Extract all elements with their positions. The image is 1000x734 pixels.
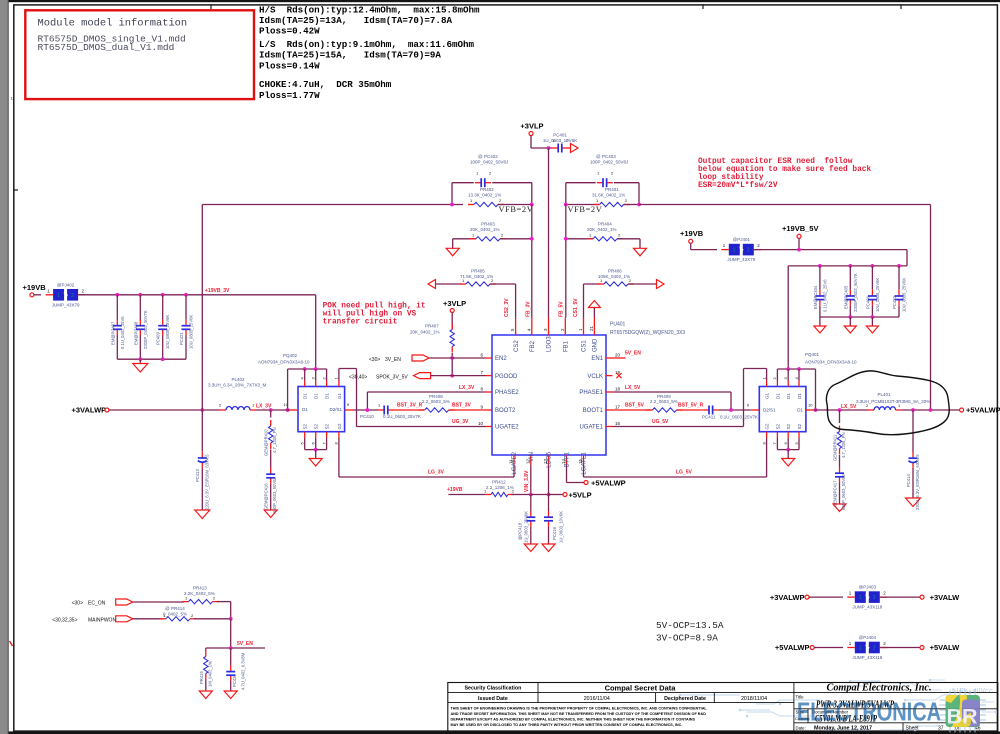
wire to PC420 [230,648,232,665]
page top black strip [9,0,1000,2]
capacitor PC416 680P_0603_50V8J [270,468,272,474]
PQ401 pin 7 S2 [776,432,778,438]
wire PQ401 top bus [777,368,815,370]
svg-text:SPOK_3V_5V: SPOK_3V_5V [376,374,408,380]
svg-text:PGOOD: PGOOD [495,374,518,380]
junction bus cap 117.3 [115,293,119,297]
junction PR411 column [838,408,842,412]
junction LDO3/PC401 [547,146,551,150]
wire PC406 to bottom bus [871,306,873,317]
wire BST_5V [613,409,651,411]
svg-text:JUMP_43X118: JUMP_43X118 [852,605,882,610]
wire from PC403 [614,182,639,184]
wire PR404 right [617,238,640,240]
svg-text:G2: G2 [337,423,342,430]
svg-text:0.1U_0603_25V7K: 0.1U_0603_25V7K [720,415,758,420]
svg-text:will pull high on VS: will pull high on VS [323,311,417,319]
PQ401 pin 9 D2/S1 [751,409,760,411]
PU401 pin 5 CS2 [515,318,517,336]
svg-text:MAINPWON: MAINPWON [88,617,116,623]
wire LX_3V phase2 [367,391,485,393]
transistor PQ401 AON7934_DFN3X3A8-10 [759,387,806,432]
svg-text:PHASE1: PHASE1 [579,390,603,396]
net arrow left of PR405 [428,280,436,289]
wire bus right corner [906,250,908,266]
svg-text:LX_3V: LX_3V [256,403,272,409]
svg-text:LX_5V: LX_5V [841,404,857,410]
terminal +5VALWP mid [584,481,588,485]
svg-text:+19VB_3V: +19VB_3V [205,288,230,294]
wire EM@PC404 to bottom bus [819,306,821,317]
wire +3VLP to PC401 [531,147,552,149]
capacitor PC410 0.1U_0603_25V7K [378,409,384,411]
svg-text:@PJ403: @PJ403 [859,585,877,590]
svg-text:+19VB: +19VB [23,283,47,292]
ground PC419 [542,544,555,552]
svg-text:2.2_0603_5%: 2.2_0603_5% [422,399,450,404]
wire 3V_EN to EN2 [429,357,486,359]
title block outer [448,683,998,733]
svg-text:PR401: PR401 [605,187,619,192]
wire PC421 to bottom bus [185,336,187,360]
svg-text:2: 2 [873,595,876,601]
page left gray margin band [0,0,9,734]
junction pin10/inductor [286,408,290,412]
capacitor EM@PC408 2200P_0402_50V7K [139,320,141,326]
svg-text:+19VB: +19VB [447,487,463,493]
wire PR406 to arrow [628,283,657,285]
wire VIN to LDO5 node [531,494,549,496]
ground PQ401 source [782,459,795,467]
ground PQ402 source [309,459,322,467]
ground PC418 [524,544,537,552]
wire pin1 G1 up [766,369,768,381]
svg-text:PC420: PC420 [232,674,237,687]
op-amp / controller PU401 RT6575DGQW(2)_WQFN20_3X3 box [492,335,606,455]
svg-text:PR407: PR407 [425,323,439,328]
wire PJ404 to +5VALW [880,647,920,649]
wire to PC413 [201,410,203,452]
svg-text:G2: G2 [765,423,770,430]
svg-text:PL402: PL402 [231,377,245,382]
resistor PR407 20K_0402_1% [451,324,453,330]
svg-text:PU401: PU401 [610,322,626,328]
hand-drawn highlight blob around PL401 [826,371,949,435]
svg-text:POK need pull high, it: POK need pull high, it [323,302,426,310]
PQ402 pin 8 G2 [338,432,340,438]
wire PC402 block right vertical [531,183,533,205]
capacitor PC420 4.7U_0402_6.3V8M [230,665,232,671]
svg-text:4.7_1206_PN: 4.7_1206_PN [272,427,277,453]
svg-text:20: 20 [615,353,621,358]
svg-text:Idsm(TA=25)=13A, Idsm(TA=70): Idsm(TA=25)=13A, Idsm(TA=70)=7.8A [259,15,452,26]
svg-text:PR413: PR413 [193,586,207,591]
svg-text:VFB=2V: VFB=2V [499,205,534,214]
svg-text:105K_0402_1%: 105K_0402_1% [598,274,630,279]
wire G1 over right [744,368,767,370]
wire PC416 to gnd [270,484,272,510]
svg-text:@PJ404: @PJ404 [859,635,877,640]
junction bus cap 162.7 [161,293,165,297]
svg-text:<30,32,35>: <30,32,35> [52,617,77,623]
PQ401 pin 10 D1 [806,409,814,411]
svg-text:loop stability: loop stability [698,174,764,182]
svg-text:31.6K_0402_1%: 31.6K_0402_1% [592,193,625,198]
junction 3V_EN [450,356,454,360]
resistor PR401 31.6K_0402_1% [594,204,600,206]
svg-text:D1: D1 [797,393,802,399]
terminal +3VALWP jumper [805,595,809,599]
resistor PR402 13.3K_0402_1% [468,204,474,206]
wire pin2 up [776,369,778,381]
wire pin10 to PL401 [814,409,868,411]
junction PQ402 drain [303,367,307,371]
resistor PR408 2.2_0603_5% [419,409,425,411]
svg-text:3.3UH_6.3A_20%_7X7X3_M: 3.3UH_6.3A_20%_7X7X3_M [208,383,267,388]
svg-text:Ploss=0.42W: Ploss=0.42W [259,26,320,37]
capacitor PC414 220U_6.3V_ESR16M_63X4.5 [912,452,914,458]
svg-text:BOOT2: BOOT2 [495,408,516,414]
svg-text:15: 15 [578,458,583,464]
svg-text:PC409: PC409 [156,332,161,345]
no-connect X on VCLK [616,373,621,378]
PU401 pin 8 PHASE2 [486,391,493,393]
svg-text:Idsm(TA=25)=15A, Idsm(TA=70): Idsm(TA=25)=15A, Idsm(TA=70)=9A [259,50,441,61]
legal text [451,707,708,727]
junction PR410 column [269,408,273,412]
svg-text:LG_3V: LG_3V [428,470,445,476]
PQ402 pin 1 G1 [338,381,340,387]
ground PC416 [264,510,277,518]
PU401 pin 21 GND [593,318,595,336]
capacitor EM@PC404 0.1U_0402_25V6 [819,290,821,296]
PU401 pin 3 LDO3 [548,318,550,336]
svg-text:11: 11 [509,459,514,464]
PQ402 pin 9 D2/S1 [345,409,353,411]
svg-text:<30,40>: <30,40> [349,374,367,380]
PQ401 pin 2 D1 [776,381,778,387]
svg-text:RT6575DGQW(2)_WQFN20_3X3: RT6575DGQW(2)_WQFN20_3X3 [610,330,685,336]
svg-text:EN1: EN1 [591,356,603,362]
wire PQ402 top bus [288,368,327,370]
svg-text:Security Classification: Security Classification [464,686,521,692]
wire EM@PC405 to bottom bus [849,306,851,317]
svg-text:S2: S2 [775,423,780,429]
flag EC_ON [116,599,133,605]
wire down to EM@PC404 [819,266,821,290]
PU401 pin 16 UGATE1 [606,426,613,428]
svg-text:LDO3: LDO3 [547,336,553,352]
junction LX5/BOOT cap [729,408,733,412]
PU401 pin 12 VIN [530,455,532,465]
wire to PR415 [205,648,207,651]
wire down to PC422 [898,266,900,290]
PQ402 pin 2 D1 [326,381,328,387]
resistor PR405 71.5K_0402_1% [460,283,466,285]
PU401 pin 6 EN2 [486,357,493,359]
svg-text:Output capacitor ESR need fol: Output capacitor ESR need follow [698,158,853,166]
svg-text:PC422: PC422 [892,296,897,309]
wire LDO3 vertical [548,148,550,318]
wire PQ401 source bus [777,449,799,451]
wire PR403 down [452,239,454,249]
wire G1 down to UG_3V [356,369,358,427]
svg-text:@: @ [596,154,601,159]
wire UG_3V [357,426,486,428]
svg-text:D2/S1: D2/S1 [763,408,776,413]
wire BST_3V [449,409,486,411]
wire CS1 vertical [583,284,585,318]
inductor PL402 3.3UH_6.3A_20%_7X7X3_M [220,409,226,411]
junction SPOK [450,374,454,378]
junction right cap 899 [897,264,901,268]
title block lines [448,692,794,694]
OCP text [656,620,724,644]
svg-text:GEM@PR411: GEM@PR411 [833,434,838,461]
wire pin7 down [326,438,328,450]
capacitor PC401 1U_0603_10V6K [552,147,558,149]
svg-text:GEM@PC416: GEM@PC416 [264,483,269,510]
svg-text:BST_3V_R: BST_3V_R [397,403,423,409]
svg-text:<30>: <30> [369,357,380,363]
PU401 pin 14 BYP1 [566,455,568,465]
svg-text:FB_5V: FB_5V [559,301,565,317]
svg-text:+3VLP: +3VLP [520,121,543,130]
svg-text:1U_0603_10V6K: 1U_0603_10V6K [543,138,577,143]
svg-text:transfer circuit: transfer circuit [323,319,398,327]
svg-text:0.1U_0402_25V6: 0.1U_0402_25V6 [822,279,827,312]
capacitor PC409 10U_0805_25V6K [162,320,164,326]
PU401 pin 10 UGATE2 [486,426,493,428]
capacitor PC417 680P_0603_50V8J [839,467,841,473]
svg-text:2.2_1206_1%: 2.2_1206_1% [486,485,514,490]
PU401 pin 17 BOOT1 [606,409,613,411]
ground PC417 [833,504,846,512]
svg-text:2: 2 [71,293,74,299]
PQ401 pin 4 D1 [798,381,800,387]
svg-text:BR: BR [947,705,979,729]
wire PR414 to node [194,618,231,620]
svg-text:MAY BE USED BY OR DISCLOSED TO: MAY BE USED BY OR DISCLOSED TO ANY THIRD… [451,723,683,727]
wire to PC418 [530,495,532,512]
svg-text:71.5K_0402_1%: 71.5K_0402_1% [460,274,493,279]
red note: POK need pull high [323,302,426,326]
wire PR411 to PC417 [839,455,841,467]
PQ402 pin 5 S2 [304,432,306,438]
svg-text:220U_6.3V_ESR16M_63X4.5: 220U_6.3V_ESR16M_63X4.5 [205,454,210,510]
svg-text:+3VALW: +3VALW [930,593,961,602]
wire pin4 up [798,369,800,381]
junction PQ401 source [786,448,790,452]
junction right gnd bus 872.4 [871,315,875,319]
svg-text:2.2_0603_5%: 2.2_0603_5% [650,399,678,404]
svg-text:1: 1 [859,646,862,652]
svg-text:13.3K_0402_1%: 13.3K_0402_1% [468,193,501,198]
wire caps bottom bus right [820,316,899,318]
svg-text:Compal Secret Data: Compal Secret Data [605,683,677,692]
ground PC413 [195,510,210,519]
wire riser to PQ402 [315,295,317,369]
svg-text:1U_0603_10V6K: 1U_0603_10V6K [559,511,564,543]
wire VFB sense left [202,204,463,206]
wire BST_3V_R [394,409,424,411]
capacitor EM@PC405 2200P_0402_50V7K [849,290,851,296]
svg-text:2200P_0402_50V7K: 2200P_0402_50V7K [143,310,148,349]
svg-text:D1: D1 [302,407,308,412]
ground left of PR403 [446,248,459,256]
junction FB loop [929,408,933,412]
PQ402 pin 7 S2 [326,432,328,438]
wire to PJ402 [34,294,41,296]
svg-text:12: 12 [525,458,530,464]
svg-text:+3VALWP: +3VALWP [770,593,805,602]
svg-text:20K_0402_1%: 20K_0402_1% [470,227,500,232]
svg-text:D1: D1 [797,408,803,413]
resistor PR411 4.7_1206_PN [839,426,841,432]
svg-text:3V_EN: 3V_EN [385,357,401,363]
wire +19VB_3V bus [79,294,316,296]
svg-text:Ploss=0.14W: Ploss=0.14W [259,60,320,71]
wire G1 over [339,368,357,370]
wire +19VB to PR412 [448,494,485,496]
jumper PJ403 [847,585,887,610]
red margin tick [10,641,13,646]
flag SPOK_3V_5V [414,373,431,379]
wire PR403 to FB2 [500,238,532,240]
junction block left [450,203,454,207]
watermark circuit traces [680,680,996,730]
wire PC403 block right vertical [638,183,640,205]
wire pin5 down [798,438,800,450]
wire PC420 gnd [230,681,232,691]
junction FB2 top [530,203,534,207]
wire to PR411 [839,410,841,423]
terminal +5VALW [920,646,924,650]
svg-text:@PC418: @PC418 [518,522,523,540]
PQ402 pin 6 S2 [315,432,317,438]
svg-text:EM@PC405: EM@PC405 [843,285,848,309]
svg-text:10: 10 [478,421,484,426]
net arrow right of PR406 [657,280,665,289]
svg-text:S2: S2 [314,423,319,429]
wire FB1 vertical [565,205,567,318]
wire to PR410 [270,410,272,418]
svg-text:<30>: <30> [72,601,83,607]
wire pin3 up [787,369,789,381]
junction right cap 872.4 [871,264,875,268]
wire PC417 to gnd [839,483,841,504]
svg-text:THIS SHEET OF ENGINEERING DRAW: THIS SHEET OF ENGINEERING DRAWING IS THE… [451,707,708,711]
svg-text:+5VLP: +5VLP [569,490,592,499]
capacitor PC422 10U_0805_25V6K [898,290,900,296]
svg-text:@: @ [165,606,170,611]
svg-text:680P_0603_50V8J: 680P_0603_50V8J [841,474,846,510]
wire LG_5V horizontal [584,476,767,478]
ground left cap bank [133,364,148,373]
svg-text:20K_0402_1%: 20K_0402_1% [587,227,617,232]
svg-text:PC413: PC413 [195,469,200,482]
wire gnd 819.9 [819,317,821,326]
svg-text:17: 17 [615,405,621,410]
svg-text:D1: D1 [325,393,330,399]
wire PL402 to PQ402 pin10 [256,409,290,411]
svg-text:EM@PC404: EM@PC404 [813,285,818,309]
wire to PJ401 [691,249,717,251]
svg-text:5V_EN: 5V_EN [237,641,253,647]
wire G2 down LG_5V [766,438,768,477]
svg-text:CS2_3V: CS2_3V [504,298,510,317]
svg-text:100P_0402_50V8J: 100P_0402_50V8J [470,160,508,165]
svg-text:BST_5V_R: BST_5V_R [678,403,704,409]
junction EC/MAIN [229,617,233,621]
wire PC414 to gnd [912,468,914,498]
wire to ground [139,359,141,363]
wire PC401 to arrow [568,147,571,149]
svg-text:BST_5V: BST_5V [625,403,645,409]
svg-text:2: 2 [747,248,750,254]
wire pin7 down [776,438,778,450]
wire LX down [366,392,368,410]
wire MAINPWON to PR414 [133,618,163,620]
svg-text:H/S Rds(on):typ:12.4mOhm, ma: H/S Rds(on):typ:12.4mOhm, max:15.8mOhm [259,4,480,15]
flag 3V_EN [412,355,429,361]
ground PR415 [199,691,212,699]
svg-text:2: 2 [873,646,876,652]
svg-text:S2: S2 [325,423,330,429]
wire node down [230,619,232,648]
wire +19VB_5V bus [754,249,907,251]
resistor PR404 20K_0402_1% [587,238,593,240]
junction LDO5 [547,493,551,497]
junction gnd bus 2 [161,357,165,361]
junction PR404/FB1 [564,237,568,241]
PU401 pin 9 BOOT2 [486,409,493,411]
wire FB2 vertical [531,205,533,318]
svg-text:D2/S1: D2/S1 [329,407,342,412]
wire VFB sense vertical [201,205,203,411]
PQ402 pin 10 D1 [290,409,299,411]
PQ401 pin 3 D1 [787,381,789,387]
ground right cap bank 819.9 [814,326,826,333]
wire PL401 to +5VALWP [902,409,960,411]
svg-text:below equation to make sure fe: below equation to make sure feed back [698,166,871,174]
wire to PJ404 [814,647,843,649]
watermark BR chip logo [940,690,987,733]
svg-text:PC410: PC410 [360,414,374,419]
wire source to gnd [315,450,317,459]
junction PQ402 drain [314,367,318,371]
svg-text:BST_3V: BST_3V [452,403,472,409]
PU401 pin 1 CS1 [583,318,585,336]
PQ401 pin 5 S2 [798,432,800,438]
capacitor PC418 1U_0603_25V6K [530,511,532,517]
wire BYP1 right [567,482,585,484]
wire down to PC421 [185,295,187,320]
wire SPOK to PGOOD [431,375,486,377]
svg-text:PC411: PC411 [702,415,716,420]
wire PC422 to bottom bus [898,306,900,317]
svg-text:AON7934_DFN3X3A8-10: AON7934_DFN3X3A8-10 [258,360,310,365]
svg-text:Issued Date: Issued Date [478,696,508,702]
wire pin3 up [315,369,317,381]
wire +19VB down [690,243,692,249]
svg-text:PC419: PC419 [552,527,557,540]
wire LX_5V phase1 [613,391,732,393]
wire source gnd [787,450,789,459]
flag MAINPWON [116,616,133,622]
wire to PJ403 [809,596,843,598]
svg-text:EN2: EN2 [495,356,507,362]
